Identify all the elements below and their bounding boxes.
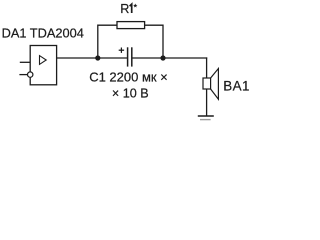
node B junction dot bbox=[160, 55, 165, 60]
wire: R1 branch left (node A up and over) bbox=[98, 25, 117, 58]
ground bar 1 bbox=[198, 115, 214, 117]
label R1 digit 1 bbox=[130, 4, 132, 13]
wire: output of DA1 to left plate of C1 bbox=[56, 57, 127, 59]
svg-text:DA1 TDA2004: DA1 TDA2004 bbox=[2, 26, 84, 41]
wire: lower input stub bbox=[19, 74, 27, 76]
wire: R1 branch right (over and down to node B) bbox=[145, 25, 163, 58]
resistor R1 body bbox=[117, 22, 145, 29]
wire: right plate of C1 to corner above speaker bbox=[132, 57, 207, 59]
svg-text:R: R bbox=[120, 2, 129, 16]
wire: upper input stub bbox=[20, 61, 30, 63]
svg-text:BA1: BA1 bbox=[223, 79, 250, 94]
svg-text:× 10 В: × 10 В bbox=[112, 86, 149, 100]
wire: vertical drop to speaker BA1 bbox=[206, 57, 208, 78]
speaker BA1 coil box bbox=[203, 78, 211, 89]
svg-text:С1 2200 мк ×: С1 2200 мк × bbox=[89, 69, 168, 84]
capacitor C1 left plate bbox=[127, 47, 129, 66]
label R1 asterisk star bbox=[133, 3, 137, 7]
node A junction dot bbox=[95, 55, 100, 60]
inverting input circle on DA1 edge bbox=[28, 72, 33, 77]
wire: speaker to ground bbox=[206, 89, 208, 116]
ground bar 2 bbox=[200, 119, 211, 121]
IC DA1 box bbox=[30, 46, 56, 85]
C1 polarity plus sign bbox=[119, 48, 124, 53]
speaker BA1 horn bbox=[211, 69, 219, 100]
op-amp triangle inside DA1 bbox=[40, 56, 47, 65]
capacitor C1 right plate bbox=[131, 47, 133, 66]
